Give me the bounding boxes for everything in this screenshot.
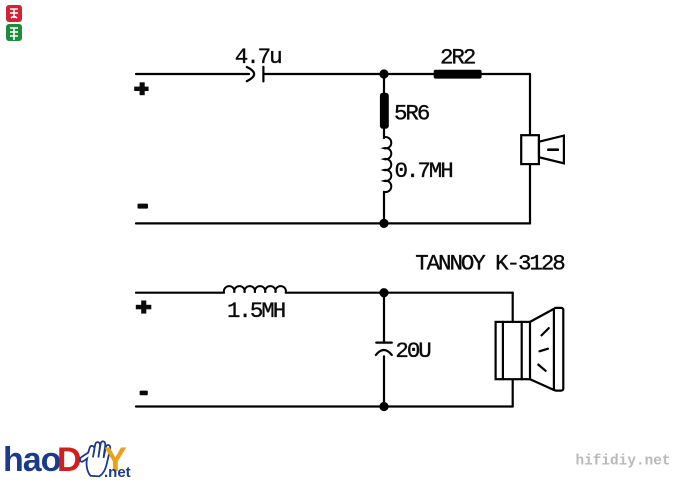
node C junction dot — [379, 288, 388, 297]
watermark badge red square top-left — [6, 5, 22, 22]
node D junction dot — [379, 402, 388, 411]
inductor L2 1.5MH coil — [224, 286, 286, 293]
svg-text:hifidiy.net: hifidiy.net — [576, 454, 671, 470]
wire top rail left (HF input to capacitor) — [136, 73, 249, 75]
tweeter LS1 horn cone — [539, 136, 564, 164]
capacitor C2 20U straight plate — [376, 342, 392, 344]
woofer LS2 magnet inner line 1 — [502, 322, 504, 379]
wire from node C down to capacitor C2 — [383, 293, 385, 343]
capacitor C2 20U curved plate — [376, 350, 392, 355]
svg-text:TANNOY K-3128: TANNOY K-3128 — [415, 251, 565, 277]
wire bottom rail of HF section — [136, 222, 530, 224]
tweeter LS1 minus mark — [548, 148, 558, 151]
svg-text:.net: .net — [104, 464, 131, 480]
wire top rail from capacitor to right corner — [263, 73, 530, 75]
woofer LS2 cone upper slant — [530, 309, 555, 322]
svg-text:0.7MH: 0.7MH — [395, 158, 453, 184]
wire right vertical lower (woofer to bottom rail) — [512, 379, 514, 406]
wire right vertical lower (tweeter to bottom rail) — [529, 164, 531, 223]
watermark badge green square top-left — [6, 24, 22, 41]
minus terminal LF — [140, 391, 148, 396]
woofer LS2 cone lower slant — [530, 379, 555, 390]
svg-text:D: D — [57, 441, 82, 479]
resistor R1 2R2 body — [434, 70, 482, 79]
woofer LS2 sound dash 1 — [542, 328, 549, 335]
node A junction dot — [379, 69, 388, 78]
wire from node A down to resistor R2 — [383, 74, 385, 94]
capacitor C1 4.7u curved plate — [247, 67, 254, 81]
woofer LS2 cone front rim — [554, 308, 563, 391]
inductor L1 0.7MH coil — [384, 137, 391, 192]
wire LF top rail from inductor to right corner — [286, 292, 513, 294]
svg-text:20U: 20U — [395, 338, 430, 364]
minus terminal HF — [138, 204, 149, 209]
wire from resistor R2 to inductor L1 — [383, 128, 385, 138]
resistor R2 5R6 body — [380, 93, 389, 129]
wire right vertical upper (to woofer) — [512, 293, 514, 322]
woofer LS2 magnet inner line 2 — [521, 322, 523, 379]
woofer LS2 sound dash 2 — [540, 349, 549, 352]
wire LF top rail left (input to inductor) — [136, 292, 224, 294]
svg-text:2R2: 2R2 — [440, 45, 475, 71]
svg-text:hao: hao — [3, 441, 61, 479]
wire from capacitor C2 to bottom rail — [383, 356, 385, 406]
wire LF bottom rail — [136, 405, 513, 407]
svg-text:1.5MH: 1.5MH — [227, 298, 285, 324]
watermark haoDIY.net logo — [3, 441, 131, 480]
wire right vertical upper (to tweeter) — [529, 74, 531, 135]
svg-text:5R6: 5R6 — [394, 100, 430, 126]
wire from inductor L1 to bottom rail — [383, 192, 385, 223]
capacitor C1 4.7u straight plate — [262, 67, 264, 82]
plus terminal HF — [134, 82, 148, 95]
woofer LS2 magnet body — [496, 322, 530, 379]
node B junction dot — [379, 219, 388, 228]
woofer LS2 sound dash 3 — [538, 365, 545, 371]
plus terminal LF — [136, 301, 152, 314]
tweeter LS1 driver body — [521, 135, 539, 164]
svg-text:4.7u: 4.7u — [235, 44, 281, 70]
